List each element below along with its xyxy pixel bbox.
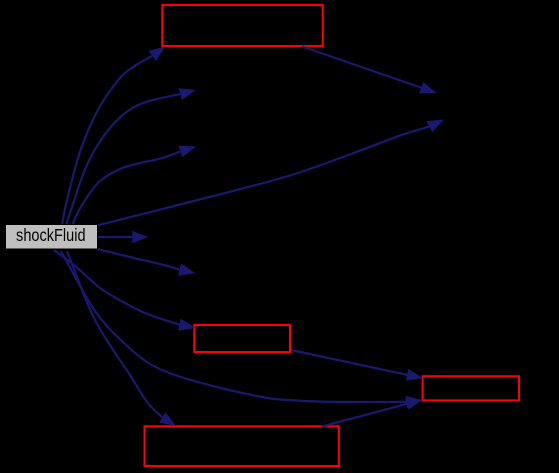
edge E2 shockFluid->node2	[66, 88, 196, 225]
edge E1 shockFluid->topBox	[62, 46, 166, 225]
edge E12 bottomBox->rightBox	[322, 398, 423, 427]
edge E10 topBox->node6b	[302, 47, 437, 94]
edge E8 shockFluid->rightBox	[61, 251, 423, 408]
edge E4 shockFluid->node6	[97, 120, 444, 226]
box bottomBox (red)	[145, 426, 339, 466]
edge E7 shockFluid->midBox	[54, 250, 195, 331]
edge E11 midBox->rightBox	[291, 350, 423, 381]
edge E5 shockFluid->node4	[97, 231, 149, 243]
node shockFluid	[6, 225, 98, 250]
box rightBox (red)	[423, 376, 519, 400]
box midBox (red)	[194, 325, 290, 352]
edge E6 shockFluid->node5	[97, 249, 196, 276]
edge E3 shockFluid->node3	[72, 146, 196, 225]
box topBox (red)	[162, 5, 322, 46]
svg-text:shockFluid: shockFluid	[16, 225, 86, 245]
edge E9 shockFluid->bottomBox	[67, 251, 176, 426]
